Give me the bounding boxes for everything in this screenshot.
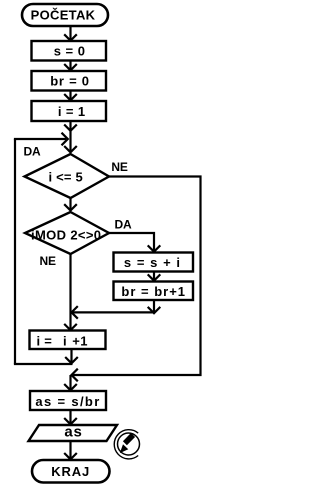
- process i = i +1: [30, 331, 106, 350]
- wire iMOD2 NE straight down to i=i+1: [64, 254, 77, 330]
- wire i=i+1 down into loop-back line: [65, 349, 78, 363]
- wire as=s/br to output: [64, 410, 77, 424]
- svg-text:POČETAK: POČETAK: [31, 8, 96, 23]
- wire join to as=s/br: [64, 375, 77, 390]
- process i = 1: [32, 101, 107, 121]
- wire junction to decision i<=5: [64, 146, 77, 152]
- svg-text:DA: DA: [115, 218, 132, 232]
- wire loop-back line (left side): [14, 133, 73, 364]
- output icon (circled pen mark): [114, 430, 139, 459]
- process s = 0: [32, 41, 107, 61]
- terminator POČETAK: [22, 4, 108, 26]
- wire i=1 down to loop junction: [64, 121, 77, 152]
- svg-text:as: as: [64, 424, 82, 441]
- wire s=0 to br=0: [64, 61, 77, 71]
- svg-text:i: i: [37, 333, 41, 348]
- svg-text:br = br+1: br = br+1: [121, 284, 186, 299]
- wire POČETAK to s=0: [64, 26, 77, 41]
- svg-text:i: i: [63, 333, 67, 348]
- svg-text:i <= 5: i <= 5: [48, 169, 82, 184]
- terminator KRAJ: [32, 460, 110, 483]
- svg-text:KRAJ: KRAJ: [51, 464, 90, 479]
- svg-text:i = 1: i = 1: [58, 104, 86, 119]
- wire br=br+1 down and left to main column: [72, 300, 161, 319]
- wire i<=5 to iMOD2 decision: [64, 198, 77, 211]
- svg-text:br = 0: br = 0: [50, 73, 90, 88]
- decision i <= 5: [25, 154, 110, 198]
- process as = s/br: [30, 391, 106, 410]
- svg-text:=: =: [44, 333, 52, 348]
- wire DA branch to s=s+i: [109, 233, 160, 252]
- wire output to KRAJ: [64, 441, 77, 459]
- svg-text:s = 0: s = 0: [54, 43, 86, 58]
- svg-text:DA: DA: [24, 144, 41, 158]
- svg-text:iMOD 2<>0: iMOD 2<>0: [31, 227, 101, 242]
- decision iMOD2<>0: [25, 212, 109, 254]
- svg-text:s = s + i: s = s + i: [124, 255, 181, 270]
- output parallelogram as: [29, 424, 118, 441]
- wire s=s+i to br=br+1: [148, 272, 161, 281]
- svg-text:as = s/br: as = s/br: [35, 394, 100, 409]
- wire br=0 to i=1: [64, 91, 77, 101]
- process s = s + i: [114, 253, 194, 272]
- svg-text:NE: NE: [40, 254, 56, 268]
- svg-text:+1: +1: [72, 333, 88, 348]
- svg-text:NE: NE: [111, 160, 127, 174]
- wire NE branch: right, down, left into output column: [72, 177, 201, 382]
- process br = 0: [32, 71, 107, 91]
- process br = br+1: [114, 282, 194, 301]
